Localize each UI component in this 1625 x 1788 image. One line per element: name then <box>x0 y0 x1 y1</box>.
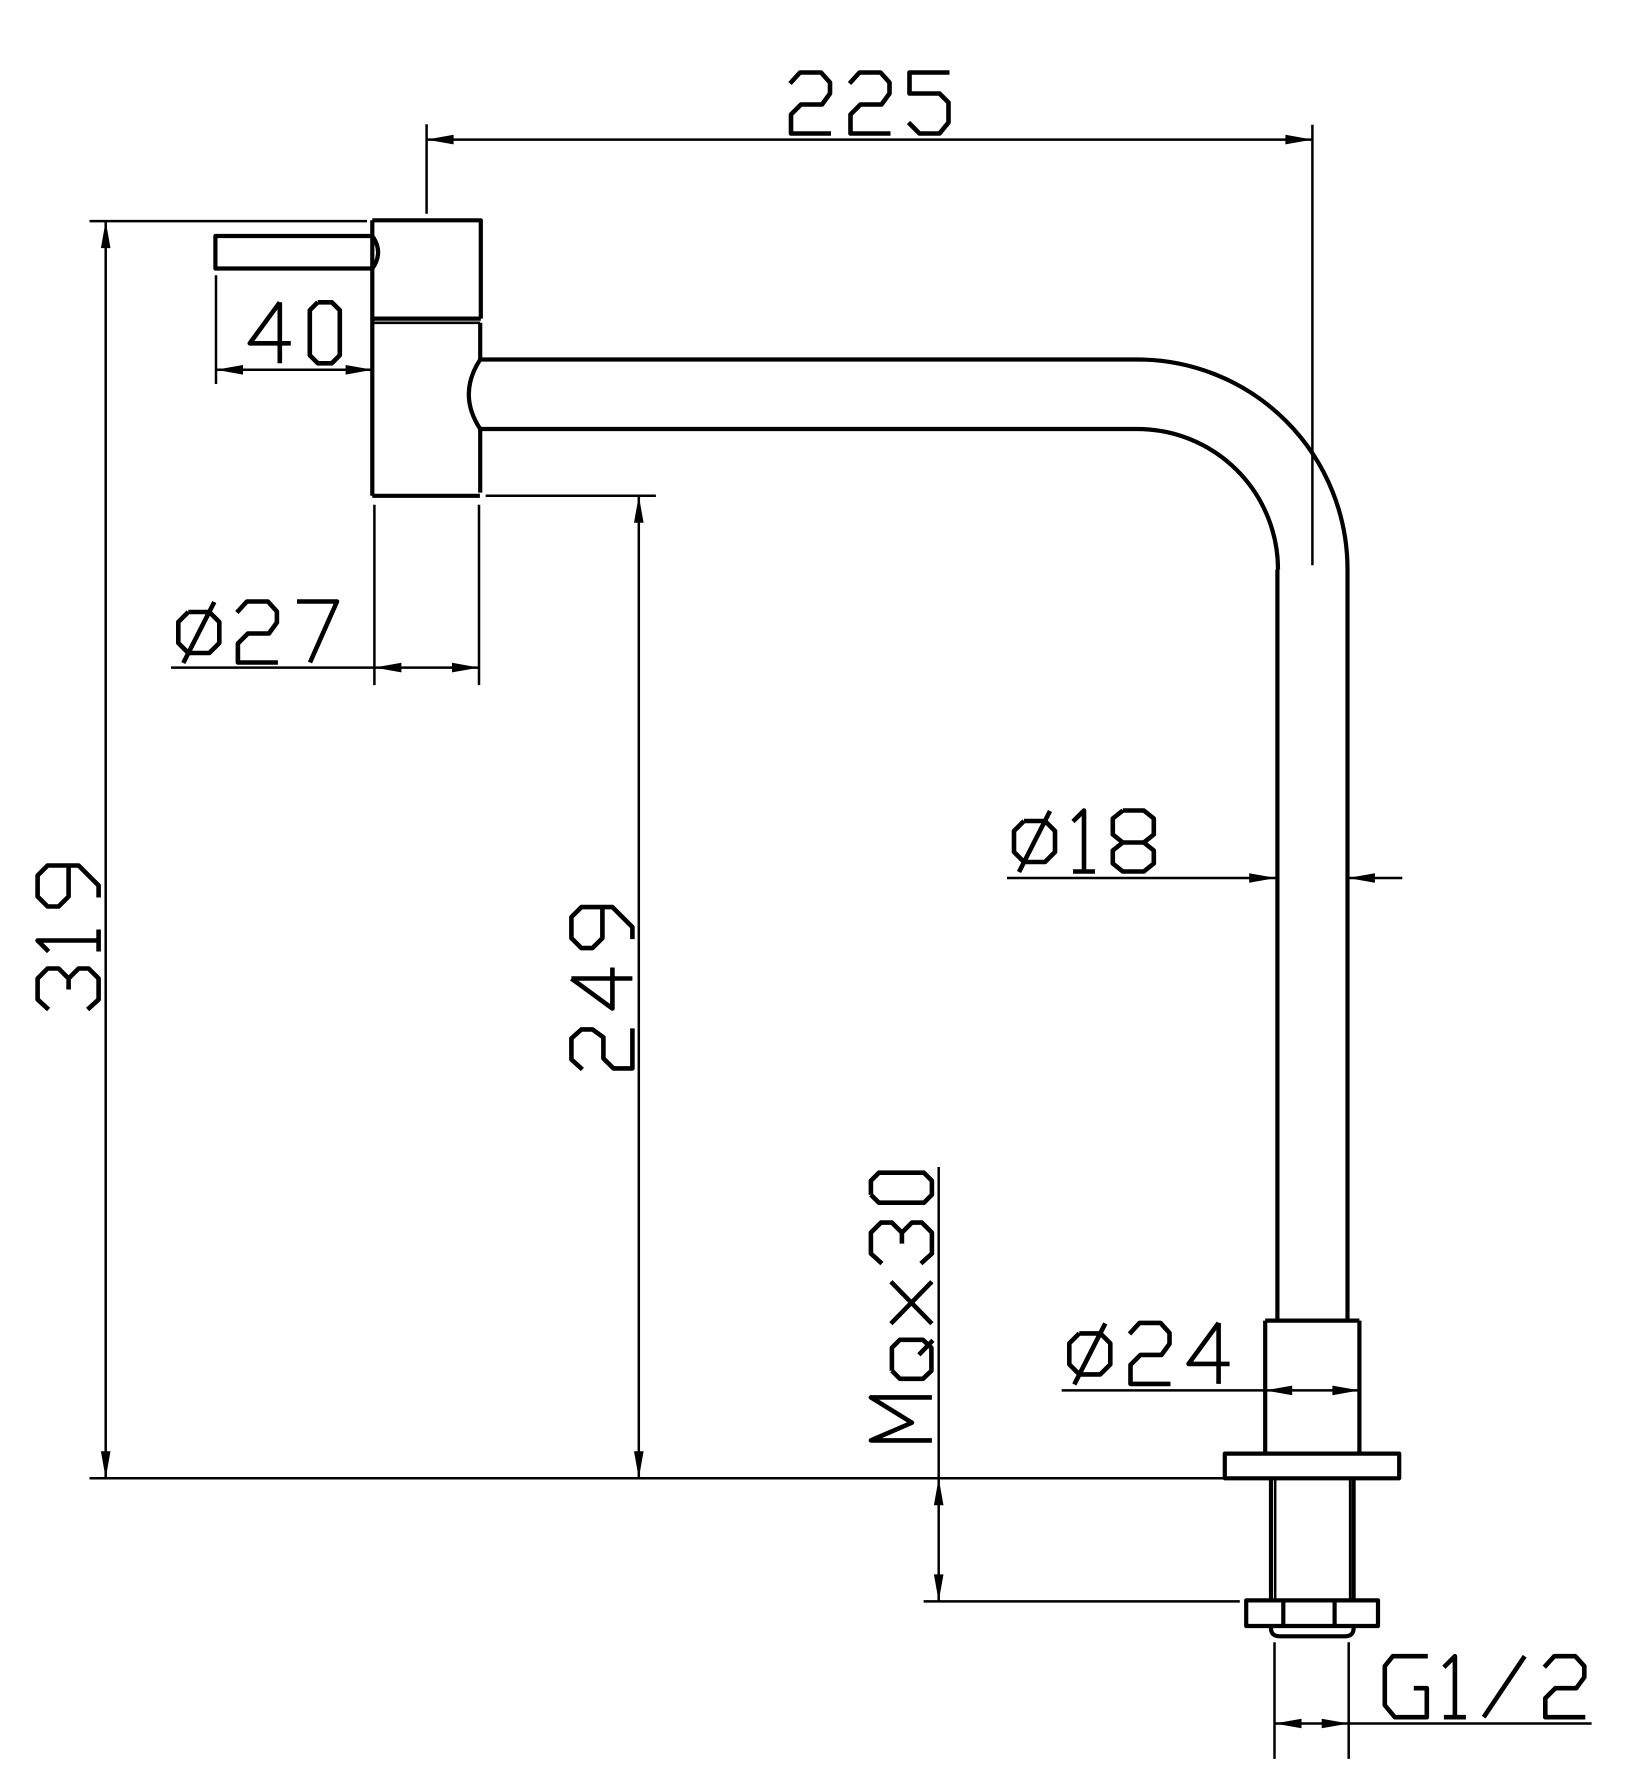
dimension Max30 extension line bottom <box>924 1600 1240 1603</box>
dimension G1/2 line <box>1275 1722 1592 1725</box>
dimension 249 line <box>638 496 641 1479</box>
dimension 319 extension line top <box>90 220 368 223</box>
dimension G1/2 extension line right <box>1347 1642 1350 1759</box>
dimension 225 extension line left <box>425 124 428 214</box>
dimension 319 arrow top <box>101 221 111 248</box>
dimension text 319 (rotated) <box>38 866 99 1010</box>
dimension Max30 line <box>937 1167 940 1601</box>
dimension 319 arrow bottom <box>101 1451 111 1478</box>
stem end below nut <box>1271 1626 1354 1636</box>
dimension 40 extension line left <box>215 275 218 384</box>
spout elbow outer arc <box>1138 360 1348 570</box>
dimension Max30 arrow top (apex at counter line) <box>934 1478 944 1505</box>
mounting flange <box>1225 1454 1399 1479</box>
dimension 40 arrow left <box>216 365 243 375</box>
dimension G1/2 arrow left <box>1275 1719 1302 1729</box>
faucet body bottom line <box>372 494 480 498</box>
dimension G1/2 extension line left <box>1273 1642 1276 1759</box>
dimension Max30 arrow bottom <box>934 1574 944 1601</box>
dimension text G1/2 <box>1385 1656 1586 1717</box>
nut facet line left <box>1281 1600 1285 1626</box>
dimension 40 arrow right <box>346 365 373 375</box>
spout bottom line <box>480 427 1137 431</box>
dimension D24 arrow left <box>1265 1386 1292 1396</box>
threaded stem thread core lines <box>1274 1478 1277 1600</box>
dimension 319 line <box>104 221 107 1478</box>
dimension 40 line <box>216 369 373 372</box>
dimension text D27 <box>178 602 337 664</box>
base cylinder <box>1265 1321 1359 1454</box>
dimension D24 arrow right <box>1332 1386 1359 1396</box>
dimension text 249 (rotated) <box>571 907 632 1069</box>
dimension D24 line <box>1062 1389 1360 1392</box>
body cap/body seam line <box>372 321 480 324</box>
handle lever <box>215 236 378 269</box>
dimension D27 extension line right <box>478 505 481 685</box>
dimension G1/2 arrow right <box>1322 1719 1349 1729</box>
dimension D18 line left <box>1007 877 1276 880</box>
riser pipe left edge <box>1275 570 1279 1321</box>
threaded stem outer edges <box>1271 1478 1354 1600</box>
faucet body right edge upper segment <box>478 323 482 360</box>
dimension D27 extension line left <box>373 505 376 685</box>
dimension 225 arrow left <box>427 135 454 145</box>
dimension text Max30 (rotated) <box>871 1173 933 1441</box>
dimension D18 line right <box>1348 877 1402 880</box>
mounting nut <box>1246 1600 1378 1626</box>
dimension text 40 <box>250 302 340 363</box>
faucet body right edge lower segment <box>478 429 482 493</box>
dimension text 225 <box>790 73 950 134</box>
dimension text D18 <box>1014 811 1154 873</box>
dimension D18 arrow right (outside, pointing left) <box>1348 873 1375 883</box>
dimension 225 extension line right <box>1311 125 1314 566</box>
spout elbow inner arc <box>1138 429 1279 570</box>
spout-body junction arc <box>469 360 480 430</box>
dimension 225 line <box>427 138 1313 141</box>
countertop reference line <box>90 1477 1225 1480</box>
faucet body cap (upper cylinder) <box>372 220 481 318</box>
nut facet line right <box>1332 1600 1336 1626</box>
dimension D27 arrow right <box>452 663 479 673</box>
faucet body left edge <box>370 220 374 496</box>
dimension text D24 <box>1069 1323 1229 1385</box>
spout top line <box>480 357 1137 361</box>
dimension D27 arrow left <box>374 663 401 673</box>
dimension 225 arrow right <box>1285 135 1312 145</box>
dimension D27 line <box>171 666 479 669</box>
dimension 249 arrow bottom <box>634 1451 644 1478</box>
dimension D18 arrow left (outside, pointing right) <box>1249 873 1276 883</box>
riser pipe right edge <box>1345 570 1349 1321</box>
dimension 249 arrow top <box>634 496 644 523</box>
dimension 249 extension line top <box>486 495 656 498</box>
